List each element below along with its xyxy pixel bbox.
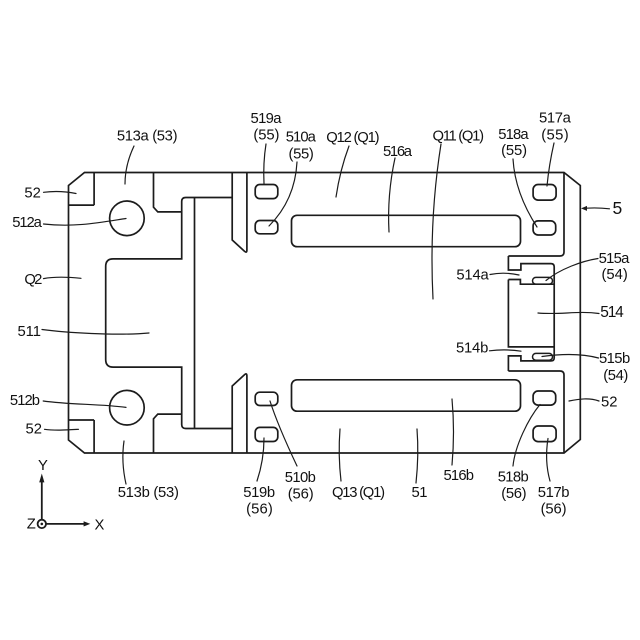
svg-text:516b: 516b [444,468,475,484]
svg-text:(56): (56) [541,502,567,518]
svg-text:517a: 517a [539,111,572,127]
svg-text:(56): (56) [246,502,273,518]
svg-text:(54): (54) [602,267,628,283]
svg-text:(56): (56) [288,487,314,503]
svg-text:(55): (55) [501,143,527,159]
svg-text:511: 511 [18,324,42,340]
svg-text:Q13 (Q1): Q13 (Q1) [332,485,385,501]
svg-text:514b: 514b [456,340,488,356]
svg-text:519a: 519a [251,111,283,127]
svg-text:516a: 516a [383,144,413,160]
svg-text:51: 51 [412,485,428,501]
svg-text:52: 52 [24,186,40,202]
svg-text:514a: 514a [456,268,489,284]
svg-text:(54): (54) [603,368,628,384]
svg-text:Q2: Q2 [24,272,42,288]
svg-text:Q11 (Q1): Q11 (Q1) [433,129,485,145]
svg-text:52: 52 [26,421,42,437]
svg-text:519b: 519b [243,485,275,501]
svg-text:(55): (55) [289,146,314,162]
svg-text:5: 5 [613,198,623,218]
svg-text:518a: 518a [498,127,529,143]
svg-text:517b: 517b [538,485,570,501]
svg-text:518b: 518b [498,470,529,486]
svg-text:Z: Z [27,517,36,533]
svg-text:X: X [95,518,105,534]
svg-text:(56): (56) [501,486,526,502]
svg-text:Y: Y [38,458,48,474]
svg-text:52: 52 [601,395,617,411]
svg-text:510b: 510b [285,470,316,486]
svg-text:510a: 510a [286,129,317,145]
svg-text:(55): (55) [541,127,569,143]
svg-text:513a (53): 513a (53) [117,129,178,145]
svg-text:513b (53): 513b (53) [118,485,179,501]
svg-text:512b: 512b [10,393,40,409]
svg-text:515b: 515b [599,351,630,367]
svg-text:512a: 512a [12,215,42,231]
svg-text:515a: 515a [599,251,631,267]
svg-text:Q12 (Q1): Q12 (Q1) [326,130,379,146]
svg-text:(55): (55) [253,128,279,144]
svg-text:514: 514 [600,304,624,321]
